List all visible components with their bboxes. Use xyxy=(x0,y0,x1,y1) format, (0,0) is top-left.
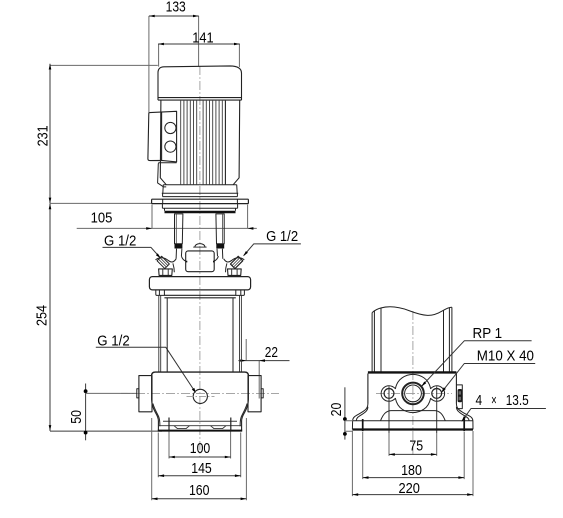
coupling guard box xyxy=(186,251,215,272)
pillar clamp band right xyxy=(216,244,224,249)
svg-text:20: 20 xyxy=(328,403,345,417)
drain hole G 1/2 xyxy=(193,389,207,403)
vent plug hex right xyxy=(228,269,242,276)
svg-text:13.5: 13.5 xyxy=(506,392,529,409)
port hole RP1 inner xyxy=(405,385,422,402)
foot plate bottom thick xyxy=(352,428,473,430)
foot flare right right view xyxy=(456,404,473,430)
shaft dome xyxy=(195,244,205,247)
svg-text:4: 4 xyxy=(476,392,483,409)
dim 105 xyxy=(77,227,257,229)
foot plate top xyxy=(352,420,473,422)
svg-text:231: 231 xyxy=(34,125,51,146)
bolt hole left M10 xyxy=(384,389,394,399)
motor flange plate xyxy=(152,199,249,203)
svg-text:50: 50 xyxy=(68,410,85,424)
dim 160 xyxy=(152,498,247,500)
dim 75 xyxy=(389,453,437,455)
clamp outline xyxy=(456,385,462,409)
dim 145 extension lines xyxy=(158,433,240,478)
terminal box gland hole 2 xyxy=(165,141,176,152)
svg-text:22: 22 xyxy=(265,344,278,361)
dim 254 reference line mid xyxy=(50,202,152,204)
svg-text:254: 254 xyxy=(34,305,51,326)
base inner step line xyxy=(159,425,242,427)
dim 100 extension lines xyxy=(169,432,231,459)
motor fin boundary xyxy=(224,101,226,185)
motor body outline xyxy=(160,100,239,185)
lantern pillar right xyxy=(216,214,224,244)
dim 50 xyxy=(85,384,87,441)
dim 50 reference line to port xyxy=(86,392,137,394)
motor cap xyxy=(158,66,242,100)
dim 141 xyxy=(158,43,240,45)
pillar clamp band left xyxy=(175,244,183,249)
base rib notch right xyxy=(211,426,227,429)
sleeve top lines xyxy=(164,295,235,298)
dim 100 xyxy=(169,456,231,458)
flange lower ring xyxy=(162,204,237,209)
clamp dark body xyxy=(458,389,463,402)
base body sides xyxy=(152,376,249,431)
dim 160 extension lines xyxy=(152,418,247,500)
vent plug left xyxy=(157,256,169,268)
motor endshield band xyxy=(162,185,238,197)
terminal box lower part xyxy=(158,163,177,187)
dim 133 extension lines xyxy=(148,16,150,113)
dim 145 xyxy=(158,475,240,477)
port stub right xyxy=(261,389,263,398)
terminal box lid edge xyxy=(161,112,163,160)
head casting curve left xyxy=(156,256,186,272)
svg-text:100: 100 xyxy=(190,440,211,457)
svg-text:G 1/2: G 1/2 xyxy=(266,228,298,245)
dim 231 reference line top xyxy=(50,64,158,66)
dim 133 right extension xyxy=(198,16,200,66)
dim 22 extension lines xyxy=(246,339,259,399)
boss peanut outline xyxy=(381,374,445,412)
chamber sleeve right xyxy=(232,298,234,372)
base top plate thick xyxy=(368,371,457,373)
chamber sleeve left xyxy=(166,298,168,372)
port hole RP1 outer xyxy=(402,383,424,405)
vent plug right xyxy=(230,256,242,268)
dim 105 extension lines xyxy=(152,205,248,229)
svg-text:×: × xyxy=(491,392,497,409)
centerline horizontal right view xyxy=(376,392,452,394)
terminal box gland hole 1 xyxy=(165,122,176,133)
svg-text:G 1/2: G 1/2 xyxy=(104,232,136,249)
centerline vertical right view xyxy=(412,311,414,457)
centerline horizontal through ports left view xyxy=(121,392,279,394)
flange bottom plate thick xyxy=(165,211,236,213)
staybolts left xyxy=(159,295,161,372)
svg-text:105: 105 xyxy=(91,209,113,226)
staybolts right xyxy=(240,295,242,372)
svg-text:180: 180 xyxy=(401,462,422,479)
motor fins xyxy=(181,101,223,185)
motor flange notches xyxy=(163,199,238,203)
lantern pillar left xyxy=(175,214,183,244)
coupling guard pins xyxy=(186,261,215,263)
base flare curves xyxy=(153,404,247,427)
svg-text:RP 1: RP 1 xyxy=(473,325,503,342)
foot slot left xyxy=(362,419,364,431)
dim 220 xyxy=(352,494,473,496)
foot slot right xyxy=(463,419,465,431)
terminal box xyxy=(148,111,177,162)
svg-text:141: 141 xyxy=(192,29,213,46)
motor cap seam xyxy=(158,98,242,101)
svg-text:133: 133 xyxy=(166,0,186,15)
dim 220 extension lines xyxy=(352,431,473,496)
dim 180 xyxy=(363,477,465,479)
svg-text:M10 X 40: M10 X 40 xyxy=(477,347,534,364)
port stub left xyxy=(137,389,139,398)
dim 75 extension lines xyxy=(389,433,437,456)
foot flare left right view xyxy=(352,404,368,430)
dim 254 reference line bottom xyxy=(50,430,162,432)
base inner line xyxy=(163,420,237,422)
pipe column walls xyxy=(372,307,452,372)
inner foot edges xyxy=(169,418,231,431)
base top edge xyxy=(152,372,249,376)
dim 20 xyxy=(344,387,346,439)
bolt hole right M10 xyxy=(432,389,442,399)
base foot bottom xyxy=(158,430,242,432)
pillar lower left xyxy=(176,249,182,259)
svg-text:160: 160 xyxy=(189,482,210,499)
head casting curve right xyxy=(214,256,244,272)
dim 22 xyxy=(238,360,289,362)
centerline vertical left view xyxy=(199,66,201,457)
svg-text:220: 220 xyxy=(399,480,420,497)
vent plug hex left xyxy=(159,269,173,276)
pipe break wavy top xyxy=(372,307,452,316)
pump top plate xyxy=(149,277,250,290)
port flange right xyxy=(248,376,261,412)
base body sides right view xyxy=(368,374,457,404)
svg-text:145: 145 xyxy=(191,460,212,477)
dim 141 extension lines xyxy=(159,44,240,67)
dim 254 xyxy=(49,204,52,210)
dim 231 xyxy=(49,64,51,431)
bolt hole centerlines xyxy=(389,387,437,434)
dim 180 extension lines xyxy=(363,432,465,479)
drain hole tick xyxy=(187,395,215,397)
port flange left xyxy=(139,376,152,412)
staybolt nut right xyxy=(236,290,245,296)
base rib notch left xyxy=(174,426,190,429)
svg-text:75: 75 xyxy=(409,437,423,454)
foot arch xyxy=(381,411,446,421)
staybolt nut left xyxy=(156,290,165,296)
dim 133 xyxy=(149,15,199,17)
motor body bottom edge xyxy=(163,184,236,186)
pillar lower right xyxy=(217,249,223,259)
